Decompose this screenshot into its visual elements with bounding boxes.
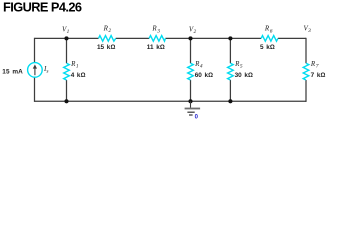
svg-text:2: 2	[108, 28, 111, 34]
resistor R5 (vertical zigzag)	[228, 63, 234, 80]
svg-text:15 mA: 15 mA	[2, 69, 23, 76]
wire: left branch upper (top rail to current source)	[34, 38, 36, 63]
node: bottom junction of R4/ground branch	[188, 99, 192, 103]
resistor R6 (horizontal zigzag)	[261, 36, 278, 42]
svg-text:4: 4	[200, 64, 203, 70]
svg-text:7: 7	[316, 64, 319, 70]
node V2 (junction dot)	[188, 36, 192, 40]
svg-text:3: 3	[156, 28, 160, 34]
resistor R7 (vertical zigzag)	[303, 63, 309, 80]
svg-text:7 kΩ: 7 kΩ	[311, 72, 326, 79]
svg-text:15 kΩ: 15 kΩ	[97, 44, 115, 51]
svg-text:5 kΩ: 5 kΩ	[260, 44, 275, 51]
wire: R1 branch upper	[66, 38, 68, 63]
wire: top rail segment R3 to R6	[165, 37, 261, 39]
svg-text:5: 5	[240, 64, 243, 70]
wire: left branch lower (current source to bottom rail)	[34, 77, 36, 102]
node: top junction of R5 branch	[228, 36, 232, 40]
wire: top rail segment R2 to R3	[116, 37, 149, 39]
wire: top rail segment R6 to top-right corner	[278, 37, 306, 39]
svg-text:60 kΩ: 60 kΩ	[195, 72, 213, 79]
node: bottom junction of R5 branch	[228, 99, 232, 103]
svg-text:1: 1	[67, 29, 70, 35]
wire: right branch upper (corner to R7)	[305, 38, 307, 63]
resistor R3 (horizontal zigzag)	[149, 36, 165, 42]
wire: R1 branch lower	[66, 80, 68, 101]
resistor R1 (vertical zigzag)	[64, 63, 70, 80]
resistor R4 (vertical zigzag)	[188, 63, 194, 80]
node: bottom junction of R1 branch	[64, 99, 68, 103]
wire: R4 branch lower	[190, 80, 192, 101]
svg-text:0: 0	[195, 114, 199, 120]
svg-text:FIGURE P4.26: FIGURE P4.26	[3, 0, 82, 15]
wire: R5 branch upper	[229, 38, 231, 63]
svg-text:30 kΩ: 30 kΩ	[235, 72, 253, 79]
svg-text:4 kΩ: 4 kΩ	[71, 72, 86, 79]
svg-text:2: 2	[194, 29, 197, 35]
node V1 (junction dot)	[64, 36, 68, 40]
current source Is 15 mA	[28, 63, 43, 78]
resistor R2 (horizontal zigzag)	[99, 36, 116, 42]
svg-text:6: 6	[270, 28, 273, 34]
wire: bottom rail	[35, 100, 307, 102]
svg-text:1: 1	[76, 64, 79, 70]
wire: right branch lower (R7 to bottom rail)	[305, 80, 307, 102]
svg-text:11 kΩ: 11 kΩ	[147, 44, 165, 51]
svg-text:s: s	[46, 69, 48, 75]
svg-text:3: 3	[307, 28, 311, 34]
wire: R4 branch upper	[190, 38, 192, 63]
ground symbol (node 0)	[185, 101, 201, 115]
wire: R5 branch lower	[229, 80, 231, 101]
wire: top rail segment left (corner to R2)	[35, 37, 99, 39]
